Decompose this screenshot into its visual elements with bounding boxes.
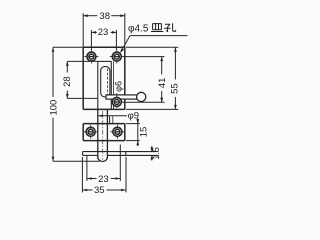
dim 1.5 line: [151, 146, 153, 161]
keeper plate top edge: [83, 123, 125, 125]
svg-text:1.5: 1.5: [151, 147, 161, 160]
wire plate bottom edge: [83, 108, 125, 110]
wire rod left below plate: [97, 109, 99, 157]
dim 35 line: [82, 157, 126, 192]
dim 23 top line: [91, 30, 116, 50]
plan strip left end: [82, 152, 84, 156]
svg-text:φ9: φ9: [128, 111, 139, 122]
wire slide guide top: [98, 60, 112, 62]
svg-text:23: 23: [98, 27, 109, 38]
svg-text:55: 55: [170, 83, 181, 94]
wire hidden rod edge in slot: [107, 69, 109, 96]
dim 15 line: [126, 119, 140, 147]
dim 38 line: [83, 13, 125, 47]
svg-text:100: 100: [48, 100, 59, 116]
leader phi4.5: [130, 35, 188, 37]
dim 23 bottom line: [87, 145, 120, 182]
wire plate left edge: [82, 47, 84, 109]
dim 28 line: [67, 61, 98, 98]
plan strip bottom edge left: [83, 154, 98, 156]
wire plate right edge: [124, 47, 126, 109]
wire slide guide left: [97, 61, 99, 109]
wire rod tip arc: [98, 157, 108, 162]
svg-text:35: 35: [94, 185, 105, 196]
plan strip bottom edge right: [107, 154, 158, 156]
plan strip top edge: [83, 151, 159, 153]
dim 55 line: [126, 47, 178, 109]
staple right side: [109, 116, 111, 123]
leader phi9: [98, 115, 126, 117]
keeper plate right edge: [124, 124, 126, 141]
knob bar: [106, 95, 137, 99]
screw U4 keeper-right: [110, 125, 124, 139]
screw U3 keeper-left: [84, 125, 98, 139]
wire slide guide right: [110, 61, 112, 109]
svg-text:φ4.5: φ4.5: [128, 24, 149, 35]
label kanji sara (dish): [151, 24, 163, 32]
screw U2 top-right countersunk: [110, 50, 124, 64]
plan strip right end: [125, 152, 127, 156]
keeper plate left edge: [82, 124, 84, 141]
svg-text:28: 28: [62, 76, 73, 87]
svg-text:15: 15: [139, 127, 150, 138]
svg-text:φ6: φ6: [113, 81, 123, 92]
node slot: [101, 67, 110, 97]
dim 100 line: [53, 47, 100, 161]
keeper plate bottom edge: [83, 140, 125, 142]
svg-text:41: 41: [157, 78, 168, 89]
dim 41 line: [122, 57, 165, 103]
knob ball: [137, 92, 146, 101]
screw U1 top-left: [84, 50, 98, 64]
knob pivot rivet: [111, 93, 123, 108]
wire rod right below plate: [106, 109, 108, 157]
wire slide guide right outer: [112, 61, 114, 109]
label kanji kou (hole): [164, 23, 176, 31]
svg-text:23: 23: [98, 174, 109, 185]
svg-text:38: 38: [99, 11, 110, 22]
wire plate top edge: [83, 46, 125, 48]
staple right outer: [112, 116, 114, 123]
wire rod center line: [102, 111, 104, 160]
